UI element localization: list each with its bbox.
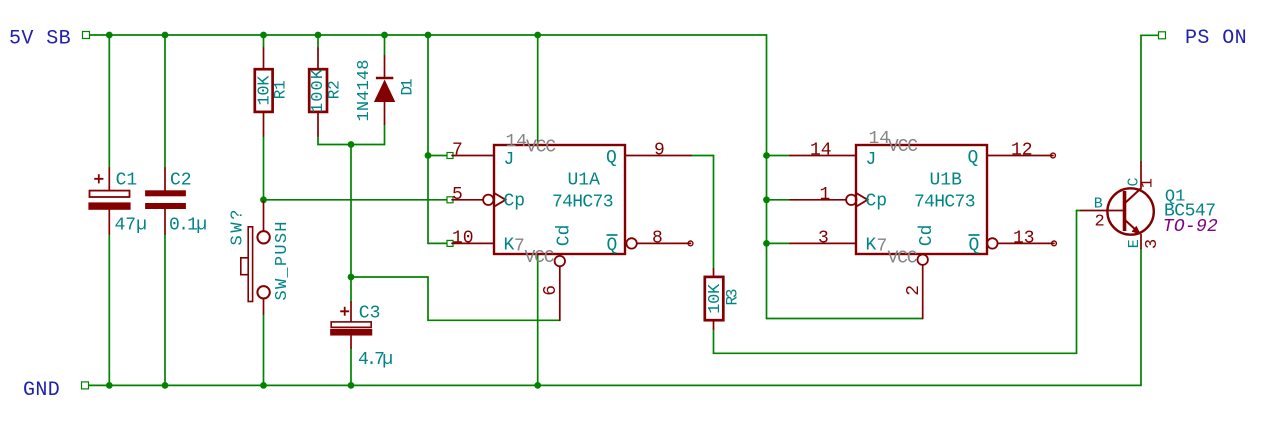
svg-text:Cd: Cd xyxy=(917,225,937,247)
node anchor GND xyxy=(82,382,89,389)
wire down to Cd level xyxy=(427,277,429,320)
junction GND C3 xyxy=(348,382,355,389)
wire pin SW top xyxy=(263,202,265,232)
wire stub to U1A pin10 xyxy=(428,242,450,244)
svg-text:7: 7 xyxy=(877,236,888,256)
wire to U1A pin6 xyxy=(428,319,560,321)
unconnected end pin 12 xyxy=(1051,153,1056,158)
svg-text:C1: C1 xyxy=(116,170,138,190)
svg-text:10: 10 xyxy=(452,228,474,248)
junction rail C1 xyxy=(106,32,113,39)
wire C1 top xyxy=(108,35,110,168)
wire pin C2 top xyxy=(164,168,166,191)
wire pin C2 bottom xyxy=(164,208,166,234)
wire R2 top xyxy=(317,35,319,48)
wire pin D1 top xyxy=(384,56,386,78)
svg-text:VCC: VCC xyxy=(526,137,556,157)
resistor R1 xyxy=(255,69,290,112)
pin 3 Q1 emitter xyxy=(1140,235,1142,249)
wire pin R2 top xyxy=(317,48,319,69)
svg-text:1N4148: 1N4148 xyxy=(355,60,374,122)
svg-text:3: 3 xyxy=(818,228,829,248)
hidden pin 14 VCC U1A xyxy=(506,132,557,157)
svg-text:R1: R1 xyxy=(272,80,290,99)
svg-text:R2: R2 xyxy=(326,80,344,99)
wire pin R1 bottom xyxy=(263,112,265,136)
unconnected end pin 13 xyxy=(1052,241,1057,246)
svg-text:14: 14 xyxy=(506,132,528,152)
svg-text:VCC: VCC xyxy=(525,248,555,268)
wire C2 bottom xyxy=(164,234,166,385)
svg-text:74HC73: 74HC73 xyxy=(914,193,976,213)
op-amp U1B body xyxy=(856,145,987,254)
svg-text:5V SB: 5V SB xyxy=(9,28,71,51)
pin 10 U1A K xyxy=(452,242,494,244)
transistor Q1 xyxy=(1107,188,1218,238)
svg-text:74HC73: 74HC73 xyxy=(552,193,614,213)
unconnected end pin 8 xyxy=(688,241,693,246)
svg-text:TO-92: TO-92 xyxy=(1163,217,1218,237)
wire C1 bottom xyxy=(108,234,110,385)
svg-text:GND: GND xyxy=(23,379,60,402)
pin 7 U1A J xyxy=(452,155,494,157)
svg-text:VCC: VCC xyxy=(888,137,918,157)
junction U1B pin3 xyxy=(763,240,770,247)
node wire end U1A pin5 xyxy=(447,197,453,203)
resistor R2 xyxy=(309,68,344,113)
junction C3 top node xyxy=(348,274,355,281)
wire pin R3 bottom xyxy=(713,320,715,329)
junction rail R1 xyxy=(260,32,267,39)
wire pin R2 bottom xyxy=(317,112,319,136)
capacitor C3 xyxy=(331,303,393,370)
wire emitter to GND xyxy=(1140,249,1142,386)
svg-text:Q: Q xyxy=(607,236,618,256)
pin bubble U1B Qbar xyxy=(987,238,997,248)
svg-text:6: 6 xyxy=(541,285,561,296)
wire R3 to base riser xyxy=(714,352,1077,354)
hidden pin 14 VCC U1B xyxy=(869,129,919,157)
svg-text:Cp: Cp xyxy=(504,192,526,212)
wire C3 node to right xyxy=(351,276,428,278)
svg-text:10K: 10K xyxy=(706,283,725,314)
capacitor C1 xyxy=(89,170,147,235)
wire pin C3 top xyxy=(350,302,352,322)
wire SW to U1A pin5 xyxy=(264,199,451,201)
pin 14 U1B J xyxy=(790,155,856,157)
wire pin R1 top xyxy=(263,48,265,69)
svg-text:3: 3 xyxy=(1143,239,1162,249)
junction rail R2 xyxy=(315,32,322,39)
junction U1B pin1 xyxy=(763,196,770,203)
svg-text:C3: C3 xyxy=(359,303,381,323)
wire stub to U1A pin7 xyxy=(428,155,450,157)
svg-text:Cd: Cd xyxy=(554,225,574,247)
wire GND rail xyxy=(85,384,1141,386)
svg-text:Q: Q xyxy=(606,148,617,168)
junction GND U1A xyxy=(534,382,541,389)
pin name Qbar U1A xyxy=(607,235,618,256)
pin name Qbar U1B xyxy=(969,235,980,256)
wire base riser xyxy=(1076,211,1078,354)
wire R3 bottom xyxy=(713,329,715,353)
svg-text:14: 14 xyxy=(810,141,832,161)
wire pin R3 top xyxy=(713,269,715,277)
svg-text:14: 14 xyxy=(869,129,891,149)
junction rail x428 xyxy=(425,32,432,39)
wire D1 bottom xyxy=(384,124,386,145)
svg-text:1: 1 xyxy=(820,185,831,205)
junction GND SW xyxy=(260,382,267,389)
wire stub U1B pin3 xyxy=(767,242,791,244)
wire C3 bottom xyxy=(350,348,352,385)
wire U1A Q out xyxy=(691,155,714,157)
junction GND C1 xyxy=(106,382,113,389)
node anchor PS ON xyxy=(1159,32,1166,39)
op-amp U1A body xyxy=(494,145,625,254)
capacitor C2 xyxy=(146,170,207,235)
svg-text:Q: Q xyxy=(968,148,979,168)
wire R2 to D1 xyxy=(318,144,385,146)
wire stub U1B pin14 xyxy=(767,155,791,157)
junction rail U1A VCC xyxy=(534,32,541,39)
pin 12 U1B Q xyxy=(987,155,1053,157)
svg-text:SW?: SW? xyxy=(229,210,248,246)
junction rail C2 xyxy=(162,32,169,39)
node wire end U1A pin7 xyxy=(447,153,453,159)
svg-text:12: 12 xyxy=(1011,141,1033,161)
junction GND C2 xyxy=(162,382,169,389)
diode D1 xyxy=(355,60,416,122)
svg-text:Cp: Cp xyxy=(866,192,888,212)
wire pin C1 bottom xyxy=(108,209,110,234)
wire U1A GND down xyxy=(537,254,539,385)
wire to U1B pin2 xyxy=(767,318,923,320)
svg-text:U1B: U1B xyxy=(930,171,963,191)
node wire end U1A pin10 xyxy=(447,240,453,246)
resistor R3 xyxy=(705,277,742,320)
pin bubble U1A Cd xyxy=(555,256,565,266)
junction U1A pin7 branch xyxy=(425,152,432,159)
wire pin D1 bottom xyxy=(384,102,386,124)
wire pin SW bottom xyxy=(263,299,265,315)
wire C2 top xyxy=(164,35,166,168)
svg-text:VCC: VCC xyxy=(888,248,918,268)
svg-text:8: 8 xyxy=(652,228,663,248)
pin 8 U1A Qbar xyxy=(637,242,691,244)
svg-text:J: J xyxy=(504,150,515,170)
pin 1 U1B Cp xyxy=(790,199,846,201)
svg-text:13: 13 xyxy=(1013,228,1035,248)
wire 5V rail down to U1B xyxy=(766,35,768,319)
svg-text:0.1µ: 0.1µ xyxy=(169,216,207,236)
wire R1 bottom to node SW xyxy=(263,136,265,200)
wire R1 top xyxy=(263,35,265,48)
switch SW? SW_PUSH xyxy=(229,210,293,302)
wire R2 bottom xyxy=(317,136,319,145)
junction rail D1 xyxy=(381,32,388,39)
svg-text:47µ: 47µ xyxy=(115,216,147,236)
svg-text:PS ON: PS ON xyxy=(1185,27,1247,50)
svg-text:9: 9 xyxy=(654,141,665,161)
junction R1 SW Cp xyxy=(260,196,267,203)
pin 1 Q1 collector xyxy=(1140,162,1142,189)
svg-text:K: K xyxy=(504,236,515,256)
svg-text:2: 2 xyxy=(1095,212,1105,231)
pin bubble U1A Qbar xyxy=(626,238,636,248)
wire collector to PS ON xyxy=(1140,35,1142,162)
wire PS ON xyxy=(1141,34,1162,36)
svg-text:K: K xyxy=(866,236,877,256)
pin 2 U1B Cd xyxy=(922,265,924,319)
svg-text:1: 1 xyxy=(1139,178,1158,188)
junction U1B pin14 xyxy=(763,152,770,159)
pin 5 U1A Cp xyxy=(452,199,483,201)
pin 3 U1B K xyxy=(790,242,856,244)
hidden pin 7 VCC U1A xyxy=(514,236,555,267)
svg-text:7: 7 xyxy=(452,141,463,161)
svg-text:C2: C2 xyxy=(170,170,192,190)
pin 6 U1A Cd xyxy=(559,266,561,320)
svg-text:U1A: U1A xyxy=(568,171,601,191)
pin 13 U1B Qbar xyxy=(998,242,1054,244)
pin bubble U1A Cp xyxy=(483,193,506,207)
wire pin C1 top xyxy=(108,168,110,191)
svg-text:4.7µ: 4.7µ xyxy=(358,350,393,370)
svg-text:5: 5 xyxy=(452,185,463,205)
wire stub U1B pin1 xyxy=(767,199,791,201)
svg-text:2: 2 xyxy=(904,285,924,296)
wire vertical to U1A J K xyxy=(427,35,429,243)
svg-text:B: B xyxy=(1094,196,1103,213)
pin 2 Q1 base xyxy=(1081,210,1123,212)
svg-text:Q: Q xyxy=(969,236,980,256)
svg-text:D1: D1 xyxy=(399,79,417,96)
svg-text:J: J xyxy=(866,150,877,170)
wire top 5V rail xyxy=(86,34,767,36)
pin bubble U1B Cd xyxy=(918,255,928,265)
node anchor 5V SB xyxy=(83,32,90,39)
wire SW bottom to GND xyxy=(263,314,265,385)
svg-text:R3: R3 xyxy=(724,289,742,306)
pin 9 U1A Q xyxy=(625,155,691,157)
svg-text:SW_PUSH: SW_PUSH xyxy=(273,222,292,301)
wire down to R3 xyxy=(713,156,715,270)
junction R2 D1 node xyxy=(348,141,355,148)
svg-text:E: E xyxy=(1126,239,1143,248)
wire U1A VCC to rail xyxy=(537,35,539,145)
wire node D1R2 down to C3 xyxy=(350,145,352,303)
wire base stub xyxy=(1077,210,1082,212)
wire pin C3 bottom xyxy=(350,335,352,348)
pin bubble U1B Cp xyxy=(846,193,868,207)
wire D1 top xyxy=(384,35,386,56)
hidden pin 7 VCC U1B xyxy=(877,236,918,268)
svg-text:7: 7 xyxy=(514,236,525,256)
